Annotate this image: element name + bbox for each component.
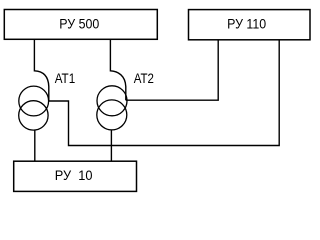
bus box РУ 500 <box>4 10 157 40</box>
wire: АТ1 to РУ 10 <box>34 130 36 161</box>
svg-text:РУ 500: РУ 500 <box>59 17 99 32</box>
wire: АТ1 tertiary to РУ 110 (down, across, up) <box>49 40 279 146</box>
autotransformer АТ1 <box>19 86 49 130</box>
svg-text:АТ2: АТ2 <box>134 71 154 86</box>
bus box РУ 110 <box>189 10 311 40</box>
svg-text:РУ 110: РУ 110 <box>227 17 266 32</box>
wire: АТ2 to РУ 10 <box>110 130 112 161</box>
wire: РУ 500 to АТ2 (with curved drop into winding) <box>110 39 125 100</box>
autotransformer АТ2 <box>97 86 127 130</box>
svg-text:РУ 10: РУ 10 <box>55 168 93 183</box>
bus box РУ 10 <box>14 161 137 191</box>
svg-text:АТ1: АТ1 <box>55 71 75 86</box>
wire: АТ2 to РУ 110 <box>126 40 218 100</box>
wire: РУ 500 to АТ1 (with curved drop into winding) <box>34 39 48 101</box>
